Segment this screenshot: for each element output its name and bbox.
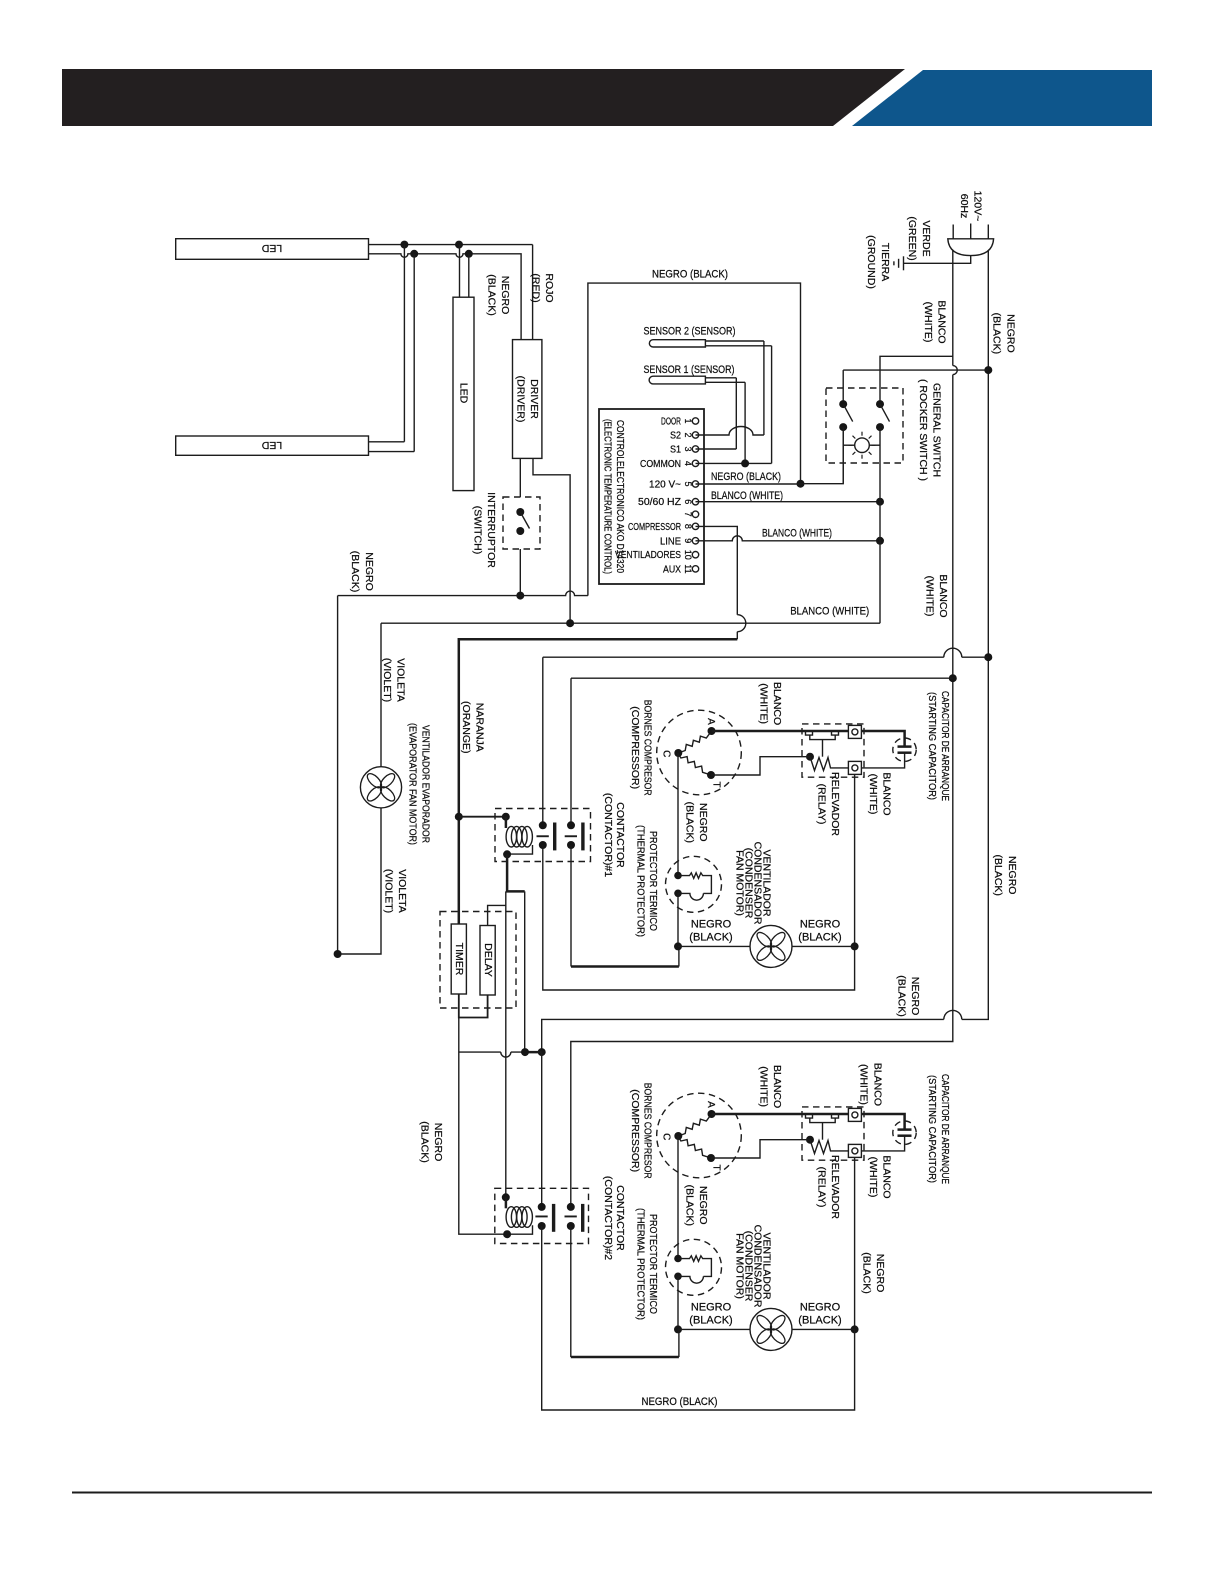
svg-text:VENTILADORES: VENTILADORES [615,550,681,561]
timer [451,924,466,994]
svg-text:NEGRO: NEGRO [691,919,732,931]
wire sensor1 to pin S1 [696,378,737,449]
svg-text:(WHITE): (WHITE) [867,774,879,815]
svg-text:VIOLETA: VIOLETA [396,869,408,913]
relay coil [806,753,848,771]
svg-text:NEGRO: NEGRO [909,977,921,1016]
label NEGRO (BLACK) mid right corner [896,975,922,1016]
control pin numbers [683,418,693,573]
svg-text:VENTILADOR EVAPORADOR: VENTILADOR EVAPORADOR [419,725,431,843]
svg-text:DOOR: DOOR [661,417,681,428]
svg-text:(CONTACTOR)#2: (CONTACTOR)#2 [602,1176,614,1260]
svg-text:(VIOLET): (VIOLET) [383,869,395,913]
compressor winding C-A [678,731,711,753]
svg-text:PROTECTOR TERMICO: PROTECTOR TERMICO [647,831,659,931]
sensor 2 [644,326,772,348]
delay [480,926,495,996]
wire driver right output [533,458,570,623]
svg-text:A: A [705,718,716,725]
label NEGRO (BLACK) left bus [349,551,375,592]
svg-text:(DRIVER): (DRIVER) [515,376,527,423]
starting capacitor [861,738,916,768]
svg-text:1: 1 [683,418,693,423]
label 120V~ 60Hz [958,191,984,222]
svg-text:TIMER: TIMER [453,943,465,976]
svg-text:S2: S2 [670,431,681,442]
wire sensor2 return to COMMON [771,346,773,464]
svg-text:ROJO: ROJO [543,273,555,302]
label NEGRO (BLACK) fan left [689,919,732,944]
label BLANCO (WHITE) y623 [790,606,869,618]
wire interruptor down [516,549,524,600]
contactor 2 pole 1 [535,1203,555,1232]
label GENERAL SWITCH (ROCKER SWITCH) [917,379,943,481]
svg-text:4: 4 [683,461,693,466]
svg-text:NARANJA: NARANJA [474,703,486,752]
svg-text:(VIOLET): (VIOLET) [381,658,393,702]
svg-text:DELAY: DELAY [482,943,494,977]
wire NEGRO link top [588,283,805,595]
label BLANCO (WHITE) plug [922,300,948,343]
label VERDE (GREEN) [906,216,932,260]
svg-text:DRIVER: DRIVER [528,379,540,419]
wire orange to contactor coil [455,639,738,924]
label NEGRO (BLACK) timer return [419,1121,445,1162]
svg-text:(BLACK): (BLACK) [861,1252,873,1293]
wire timer/delay bottom tie [458,994,489,1018]
svg-text:AUX: AUX [663,564,681,575]
svg-text:( ROCKER SWITCH ): ( ROCKER SWITCH ) [917,379,929,481]
wire bottom outer loop bottom [542,1226,855,1410]
label NEGRO (BLACK) pin5 [711,471,781,483]
svg-text:(GROUND): (GROUND) [865,235,877,289]
label NEGRO (BLACK) led wire [486,274,512,315]
svg-text:6: 6 [683,499,693,504]
svg-text:NEGRO (BLACK): NEGRO (BLACK) [642,1396,718,1408]
wire ground green [904,256,971,264]
header blue banner [852,70,1152,126]
label BLANCO (WHITE) relay out [867,772,893,815]
wire mid outer loop bottom [543,845,855,990]
svg-text:C: C [661,750,672,757]
wire T to relay [711,757,810,775]
LED strip 2 [176,436,369,455]
svg-text:TIERRA: TIERRA [879,243,891,282]
wire mid inner loop top (white) [571,678,953,825]
wire to vertical LED bar [460,245,469,298]
svg-text:(WHITE): (WHITE) [758,683,770,724]
label NEGRO (BLACK) bottom right riser [861,1252,887,1293]
svg-text:T: T [710,781,721,787]
junction dots LED wires [400,241,472,258]
svg-text:(RED): (RED) [530,273,542,302]
label NEGRO (BLACK) fan right [798,919,841,944]
control pin labels [615,417,681,576]
svg-text:BLANCO: BLANCO [771,682,783,725]
svg-text:(BLACK): (BLACK) [419,1121,431,1162]
label VIOLETA (VIOLET) bottom [383,869,409,913]
contactor 2 pole 2 [565,1203,585,1232]
svg-text:NEGRO: NEGRO [1006,856,1018,895]
label ROJO (RED) [530,273,556,302]
wire pin6 to switch white [696,498,885,506]
svg-text:(COMPRESSOR): (COMPRESSOR) [629,706,641,789]
svg-text:SENSOR 2 (SENSOR): SENSOR 2 (SENSOR) [644,326,736,338]
svg-text:NEGRO: NEGRO [874,1254,886,1293]
svg-text:(STARTING CAPACITOR): (STARTING CAPACITOR) [926,692,938,800]
svg-text:S1: S1 [670,445,681,456]
label VENTILADOR CONDENSADOR (CONDENSER FAN MOTOR) [734,842,773,925]
label RELEVADOR (RELAY) [816,772,842,836]
svg-text:10: 10 [683,550,693,560]
label NARANJA (ORANGE) [460,701,486,754]
svg-text:(BLACK): (BLACK) [349,551,361,592]
svg-text:NEGRO (BLACK): NEGRO (BLACK) [652,269,728,281]
label NEGRO (BLACK) plug [991,313,1017,354]
thermal protector [666,856,722,912]
electronic control box U1 [599,409,704,584]
wire y596 bus [338,591,588,596]
wire 1052 tie bus [459,1048,542,1057]
svg-text:120 V~: 120 V~ [649,480,681,491]
svg-text:CONTACTOR: CONTACTOR [614,1185,626,1251]
label VIOLETA (VIOLET) top [381,658,407,702]
svg-text:NEGRO: NEGRO [697,803,709,842]
contactor 1 box [495,809,591,862]
svg-text:CONTACTOR: CONTACTOR [614,802,626,868]
svg-text:COMPRESSOR: COMPRESSOR [628,522,681,533]
wire black to rocker switch [843,370,988,404]
label CONTACTOR (CONTACTOR)#1 [602,793,626,877]
wire white from plug [571,251,958,1207]
svg-text:BLANCO: BLANCO [936,300,948,343]
label CAPACITOR DE ARRANQUE (STARTING CAPACITOR) [926,691,951,801]
wire coil line down to contactor 2 [505,891,507,1197]
label BORNES COMPRESOR (COMPRESSOR) [629,700,654,796]
label CONTACTOR (CONTACTOR)#2 [602,1176,626,1260]
svg-text:(BLACK): (BLACK) [683,802,695,843]
svg-text:NEGRO: NEGRO [1004,314,1016,353]
svg-text:(BLACK): (BLACK) [798,932,841,944]
label BLANCO (WHITE) bottom top right [858,1063,884,1106]
wire C to protector [677,753,679,876]
contactor 1 pole 2 [565,821,585,850]
sensor 1 [644,364,746,384]
wire pin8 compressor down [696,526,746,639]
svg-text:60Hz: 60Hz [958,194,970,219]
svg-text:VIOLETA: VIOLETA [395,658,407,702]
general rocker switch [826,388,903,623]
contactor 2 box [495,1188,589,1243]
wire pin9 LINE to switch [696,536,885,545]
label BLANCO (WHITE) mid riser [924,574,950,617]
wire LED1-LED2 left pair [369,245,415,452]
contactor 2 coil [502,1193,533,1238]
relay terminal top [848,725,861,738]
svg-text:BLANCO: BLANCO [871,1063,883,1106]
svg-text:11: 11 [683,564,693,573]
svg-text:NEGRO: NEGRO [363,552,375,591]
wire condenser fan row [678,945,855,947]
svg-text:3: 3 [683,446,693,451]
relay box [802,724,864,777]
svg-text:NEGRO: NEGRO [432,1123,444,1162]
svg-text:(BLACK): (BLACK) [992,854,1004,895]
wire mid outer loop top (black) [543,648,989,825]
wire LED1 lower to driver (NEGRO) with hops [369,254,522,340]
svg-text:BORNES COMPRESOR: BORNES COMPRESOR [642,700,654,796]
footer rule [72,1492,1152,1494]
wire sensor2 to pin S2 with hop [696,341,764,435]
LED bar (vertical) [453,297,474,490]
svg-text:GENERAL SWITCH: GENERAL SWITCH [931,383,943,477]
wire white bus y623 [381,619,880,627]
label BLANCO (WHITE) pin6 [711,490,783,502]
wire LED1 upper to driver (ROJO) [369,245,533,340]
relay contact tabs [806,731,839,756]
svg-text:(RELAY): (RELAY) [816,784,828,825]
control pin circles [692,418,698,572]
wire driver to interruptor [519,458,521,497]
contactor 1 coil [502,813,533,859]
svg-text:COMMON: COMMON [640,459,681,470]
wire coil1 bottom to lower bus [507,854,526,1052]
svg-text:(ELECTRONIC TEMPERATURE CONTRO: (ELECTRONIC TEMPERATURE CONTROL) [601,419,613,574]
svg-text:BLANCO: BLANCO [881,772,893,815]
svg-text:(CONTACTOR)#1: (CONTACTOR)#1 [602,793,614,877]
svg-text:LED: LED [458,383,470,404]
svg-text:BLANCO: BLANCO [937,574,949,617]
wire evap fan top to white bus [380,623,382,767]
svg-text:120V~: 120V~ [972,191,984,222]
svg-text:(ORANGE): (ORANGE) [460,701,472,754]
wire bottom inner loop bottom [571,1226,679,1357]
svg-text:5: 5 [683,481,693,486]
header black banner [62,69,905,126]
svg-text:2: 2 [683,432,693,437]
label INTERRUPTOR (SWITCH) [471,492,497,568]
svg-text:LED: LED [261,439,282,451]
power plug [948,224,994,256]
label BLANCO (WHITE) start wire [758,682,784,725]
svg-text:BLANCO (WHITE): BLANCO (WHITE) [762,527,832,539]
svg-text:SENSOR 1 (SENSOR): SENSOR 1 (SENSOR) [644,364,735,376]
condenser fan motor [750,925,792,967]
label NEGRO (BLACK) compressor out [683,802,709,843]
wire delay top to coil line [488,905,506,925]
svg-text:(GREEN): (GREEN) [906,216,918,260]
svg-text:9: 9 [683,538,693,543]
relay terminal bottom [848,761,861,774]
svg-text:(BLACK): (BLACK) [486,274,498,315]
lamp in switch [843,432,880,459]
label PROTECTOR TERMICO (THERMAL PROTECTOR) [634,825,659,937]
timer delay box [440,912,516,1009]
label NEGRO (BLACK) bottom [642,1396,718,1408]
svg-text:NEGRO (BLACK): NEGRO (BLACK) [711,471,781,483]
svg-text:LED: LED [261,242,282,254]
ground symbol [894,256,904,270]
svg-text:(BLACK): (BLACK) [991,313,1003,354]
svg-text:BLANCO (WHITE): BLANCO (WHITE) [711,490,783,502]
svg-text:VERDE: VERDE [920,220,932,256]
svg-text:INTERRUPTOR: INTERRUPTOR [485,492,497,568]
compressor circle [657,710,742,795]
svg-text:8: 8 [683,524,693,529]
wire white branch to switch [880,356,953,404]
svg-text:NEGRO: NEGRO [800,919,841,931]
contactor 1 pole 1 [537,821,557,850]
svg-text:(BLACK): (BLACK) [689,932,732,944]
svg-text:(EVAPORATOR FAN MOTOR): (EVAPORATOR FAN MOTOR) [406,723,418,845]
wire black from plug [538,251,993,1057]
label NEGRO (BLACK) right riser [992,854,1018,895]
label BLANCO (WHITE) pin9 [762,527,832,539]
compressor winding C-T [678,754,711,775]
wire relay to condenser fan (white) [851,774,859,950]
wire bottom outer left [541,1052,543,1207]
wire protector to fan row [674,893,682,950]
label NEGRO (BLACK) top link [652,269,728,281]
LED strip 1 [176,239,369,260]
svg-text:LINE: LINE [660,536,681,547]
svg-text:FAN MOTOR): FAN MOTOR) [734,850,746,916]
compressor terminals [661,718,722,787]
wire timer to contactor2 coil return [459,1018,507,1235]
interruptor switch box [503,497,540,549]
svg-text:RELEVADOR: RELEVADOR [829,772,841,836]
svg-text:BLANCO (WHITE): BLANCO (WHITE) [790,606,869,618]
svg-text:50/60 HZ: 50/60 HZ [638,497,681,508]
wire left loop down to evap fan [334,596,381,958]
evaporator fan motor [360,767,401,808]
svg-text:NEGRO: NEGRO [499,276,511,315]
svg-text:(THERMAL PROTECTOR): (THERMAL PROTECTOR) [634,825,646,937]
svg-text:(WHITE): (WHITE) [922,302,934,343]
svg-text:(SWITCH): (SWITCH) [471,506,483,554]
svg-text:(WHITE): (WHITE) [924,576,936,617]
svg-text:CAPACITOR DE ARRANQUE: CAPACITOR DE ARRANQUE [939,691,951,801]
LED driver [513,340,542,459]
label TIERRA (GROUND) [865,235,891,289]
wire pin5 120V to switch [696,427,844,484]
wire A to capacitor (white) [712,731,905,747]
svg-text:7: 7 [683,512,693,517]
wire sensor1 return to COMMON [696,382,772,467]
wire mid inner loop bottom [571,845,679,967]
label VENTILADOR EVAPORADOR (EVAPORATOR FAN MOTOR) [406,723,431,845]
svg-text:(BLACK): (BLACK) [896,975,908,1016]
svg-text:(WHITE): (WHITE) [858,1064,870,1105]
